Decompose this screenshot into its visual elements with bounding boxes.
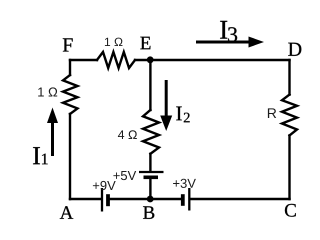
wire node B to battery V1: [110, 198, 151, 200]
wire F to top resistor: [70, 59, 97, 61]
wire battery V2 to node B: [149, 178, 151, 200]
label I3 I: [220, 21, 227, 39]
node E label: [140, 37, 150, 49]
battery V1 +9V negative short plate: [106, 194, 110, 206]
label I2 sub: [184, 113, 190, 123]
battery V1 +9V positive long plate: [101, 188, 103, 212]
wire 4ohm resistor to battery V2: [149, 154, 151, 171]
value label 1 ohm left resistor: [38, 87, 57, 96]
battery V3 +3V positive long plate: [188, 188, 190, 211]
wire top resistor through node E to D: [135, 59, 290, 61]
wire battery V1 to A: [70, 198, 101, 200]
resistor R1 1ohm between A and F: [63, 75, 78, 114]
battery V3 +3V negative short plate: [181, 194, 185, 206]
value label R: [268, 108, 276, 118]
wire battery V3 to node B: [150, 198, 182, 200]
wire C to battery V3: [190, 198, 290, 200]
current arrow I2: [160, 80, 172, 131]
wire left resistor to F: [69, 60, 71, 75]
value label +5V: [113, 171, 136, 180]
node F label: [63, 38, 73, 51]
node E junction dot: [147, 56, 154, 63]
value label +9V: [93, 181, 116, 190]
node A label: [60, 206, 73, 219]
node C label: [285, 204, 296, 217]
node B label: [143, 206, 154, 218]
value label 1 ohm top resistor: [105, 38, 123, 46]
wire D down to resistor R: [288, 60, 290, 95]
label I1 sub: [42, 154, 48, 165]
battery V2 +5V positive long plate: [139, 171, 164, 173]
label I1 I: [33, 147, 40, 164]
current arrow I1: [47, 108, 58, 157]
node D label: [288, 43, 301, 56]
value label 4 ohm: [118, 130, 137, 139]
label I3 sub: [228, 27, 237, 42]
resistor R3 4ohm between E and B: [143, 110, 159, 154]
resistor R between D and C: [282, 95, 297, 136]
current arrow I3: [196, 37, 264, 48]
wire A up to left resistor: [69, 114, 71, 199]
resistor R2 1ohm between F and E: [97, 52, 135, 68]
node B junction dot: [147, 196, 154, 203]
wire node E down to 4ohm resistor: [149, 60, 151, 110]
wire resistor R to C: [288, 135, 290, 199]
value label +3V: [173, 179, 196, 188]
battery V2 +5V negative short plate: [144, 176, 159, 180]
label I2 I: [176, 107, 181, 121]
